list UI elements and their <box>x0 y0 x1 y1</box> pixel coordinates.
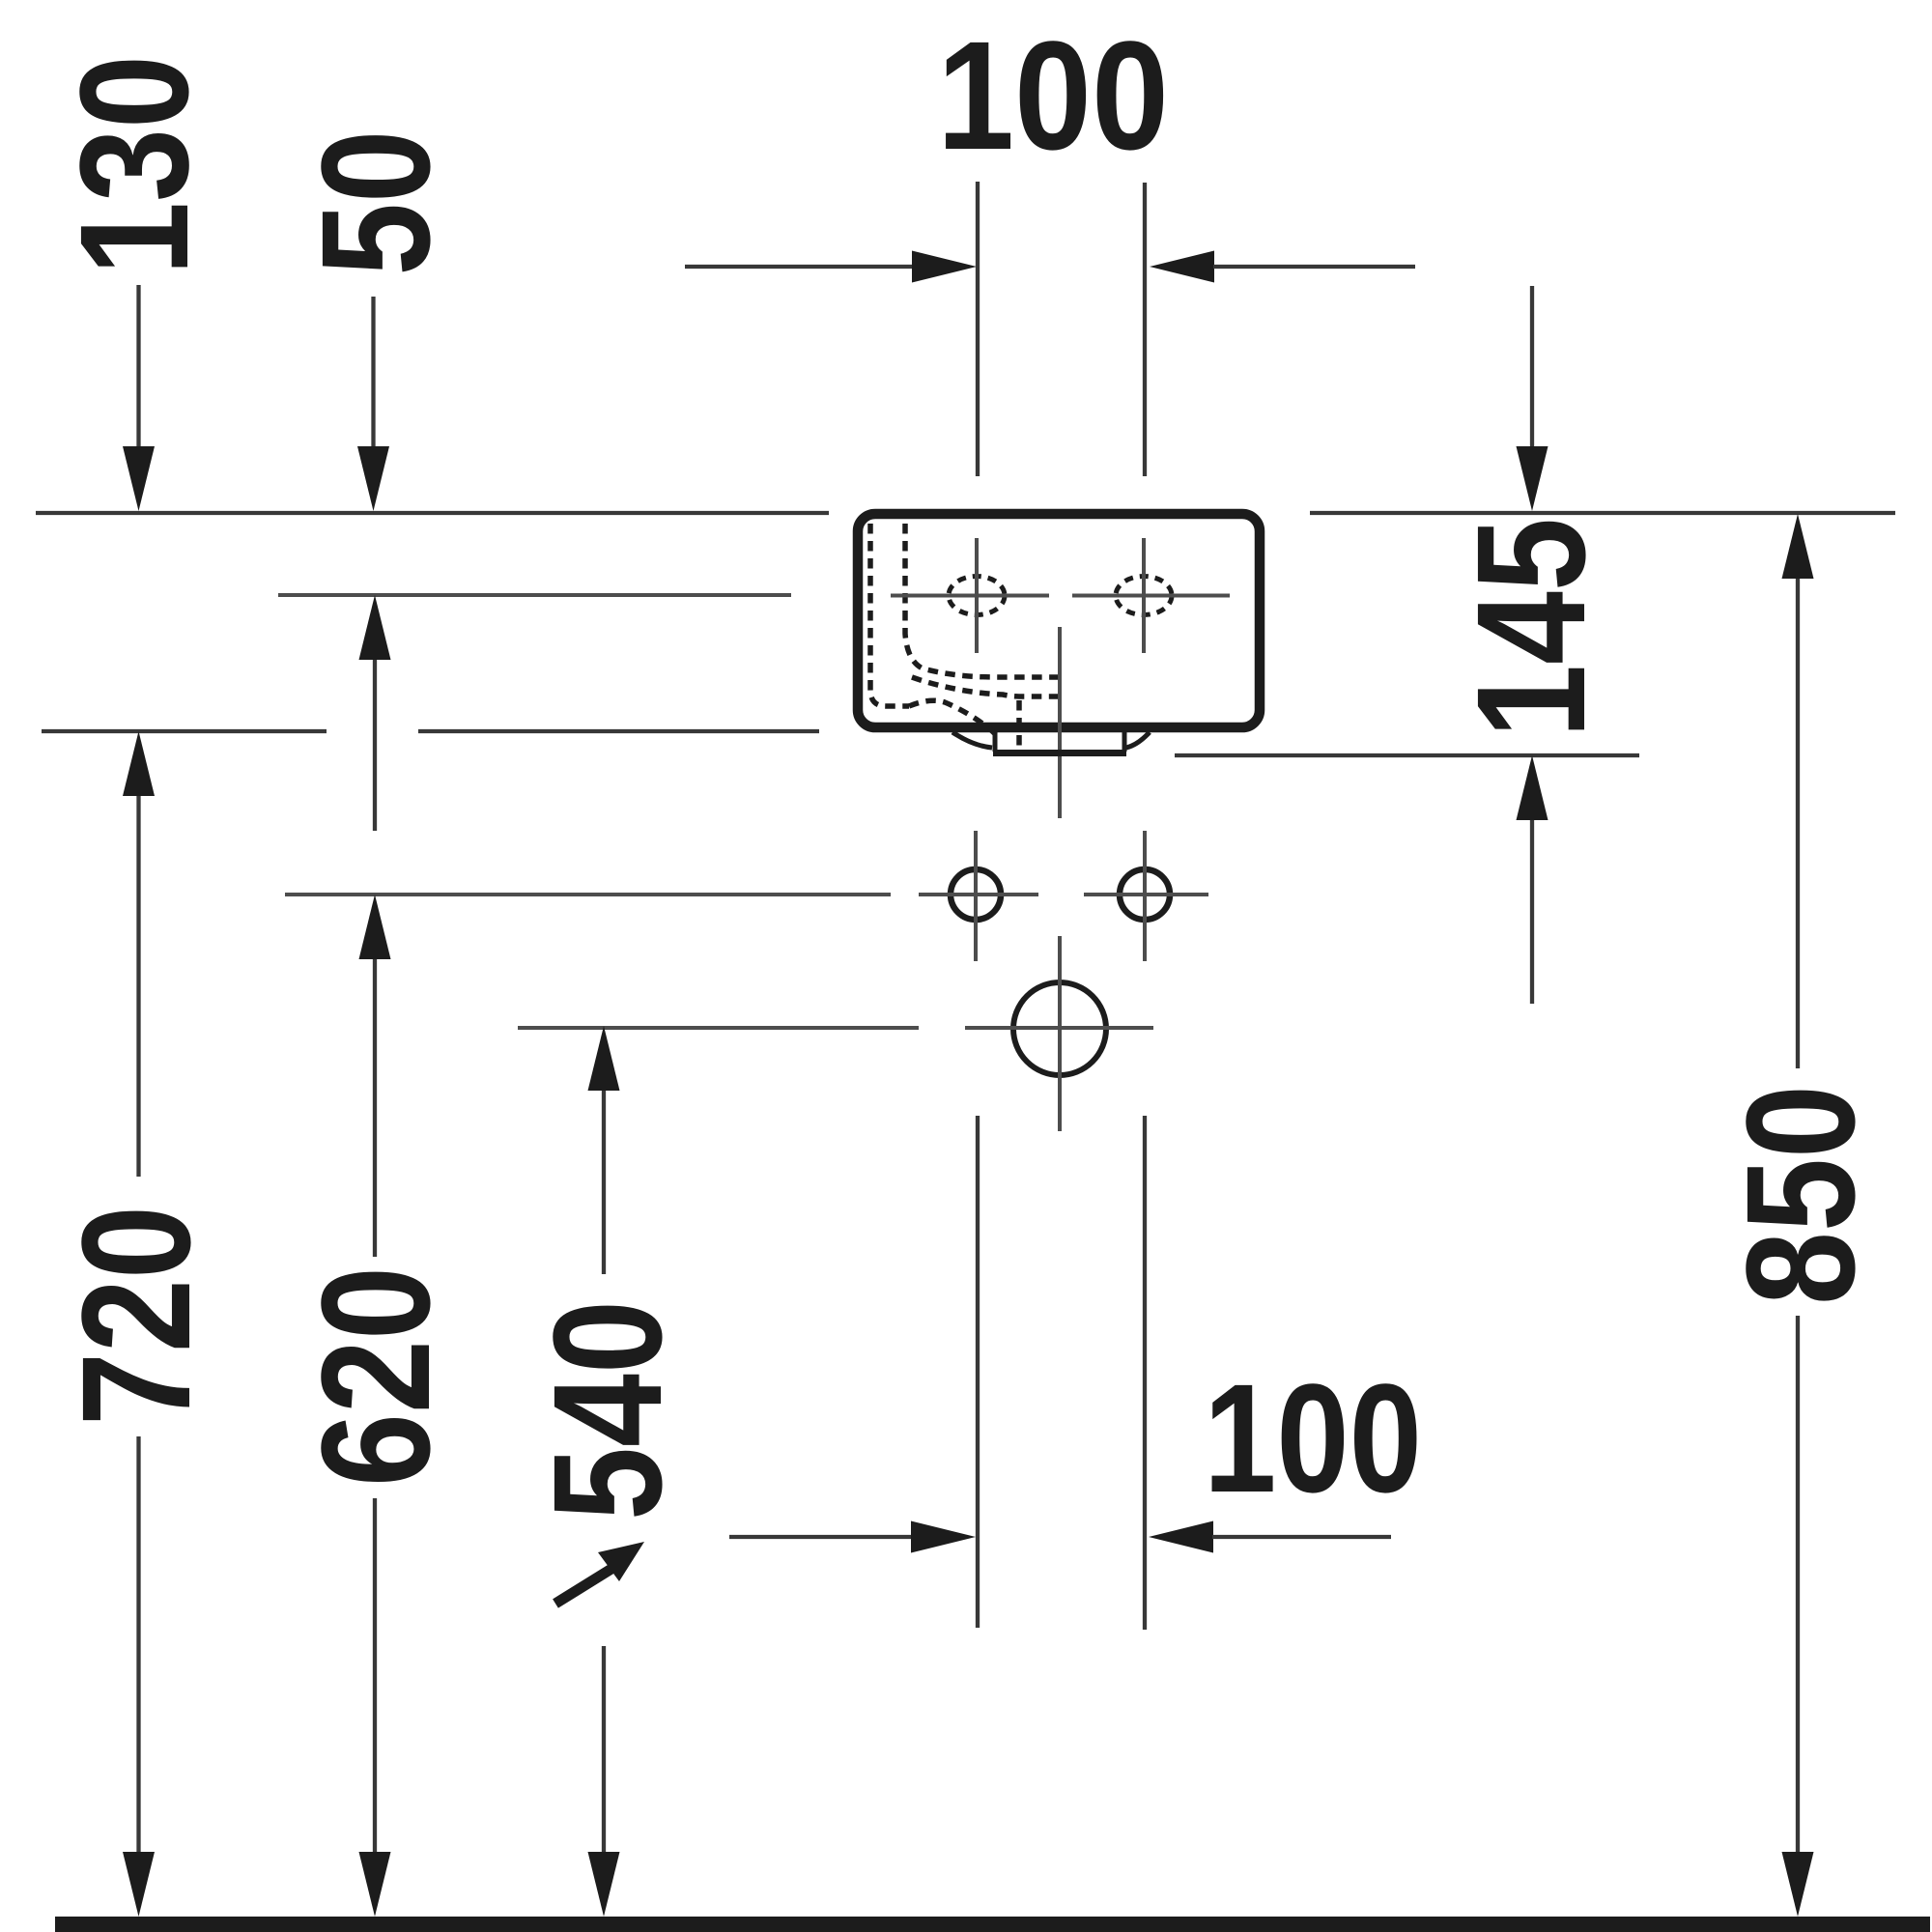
drain outlet vertical crosshair <box>1058 936 1062 1131</box>
dimension 540 line lower <box>602 1646 606 1855</box>
drain outlet circle <box>1013 982 1106 1075</box>
drain centerline upper segment <box>1058 627 1062 818</box>
dimension 145 lower arrow tail <box>1530 820 1534 1004</box>
dimension 620 arrowhead <box>359 895 391 959</box>
dimension 100 bottom left arrowhead <box>911 1521 976 1553</box>
dimension 100 top right arrow line <box>1213 265 1415 269</box>
wall fixing hole left circle <box>951 869 1001 920</box>
wall fixing hole right circle <box>1120 869 1170 920</box>
outlet direction arrow line <box>555 1569 611 1604</box>
dimension 50 arrowhead <box>357 446 389 511</box>
basin bottom reference line left segment <box>42 729 327 733</box>
trap left wall <box>993 732 998 752</box>
basin interior dashed inner wall and channel top <box>905 524 1060 677</box>
basin interior dashed channel mid wall <box>912 677 1060 696</box>
faucet hole right vertical crosshair <box>1142 538 1146 653</box>
faucet hole right dashed ellipse <box>1116 577 1172 615</box>
dimension 130 arrowhead <box>123 446 155 511</box>
svg-text:620: 620 <box>289 1266 462 1487</box>
faucet holes horizontal crosshair right <box>1072 594 1230 598</box>
dimension 850 line upper <box>1796 579 1800 1068</box>
fixing hole right horizontal crosshair <box>1084 893 1208 896</box>
dimension 50 counter arrow tail <box>373 660 377 831</box>
trap bottom plate <box>993 750 1126 756</box>
dimension 850 floor arrowhead <box>1782 1852 1814 1917</box>
fixing hole right vertical crosshair <box>1143 831 1147 961</box>
basin interior dashed drain wall <box>1016 700 1022 753</box>
drain centerline extension left <box>518 1026 919 1030</box>
dimension 145 upper arrow line <box>1530 286 1534 449</box>
dimension 145 upper arrowhead <box>1517 446 1548 511</box>
fixing hole left horizontal crosshair <box>919 893 1038 896</box>
dimension 100 bottom left arrow line <box>729 1535 912 1539</box>
faucet dimension extension line left <box>976 182 980 476</box>
dimension 50 arrow line <box>371 297 375 449</box>
wall top reference line left segment <box>36 511 829 515</box>
svg-text:720: 720 <box>49 1206 222 1426</box>
svg-text:50: 50 <box>289 130 462 276</box>
svg-text:540: 540 <box>521 1300 694 1520</box>
svg-text:100: 100 <box>1204 1351 1422 1524</box>
fixing dimension extension line right <box>1143 1116 1147 1630</box>
dimension 100 top right arrowhead <box>1150 251 1214 283</box>
trap left arc <box>952 732 992 748</box>
svg-text:100: 100 <box>937 9 1169 182</box>
outlet direction arrowhead <box>598 1542 644 1581</box>
svg-text:145: 145 <box>1444 518 1617 738</box>
trap right wall <box>1122 732 1127 752</box>
dimension 720 floor arrowhead <box>123 1852 155 1917</box>
fixing holes centerline extension <box>285 893 891 896</box>
dimension 145 lower arrowhead <box>1517 755 1548 820</box>
faucet hole left dashed ellipse <box>949 577 1005 615</box>
basin interior dashed lower slope <box>909 700 996 735</box>
trap right arc <box>1126 732 1150 748</box>
dimension 720 arrowhead <box>123 731 155 796</box>
dimension 130 arrow line <box>136 285 140 449</box>
dimension 620 line upper <box>373 959 377 1257</box>
faucet holes horizontal crosshair left <box>891 594 1049 598</box>
dimension 720 line upper <box>136 796 140 1177</box>
faucet dimension extension line right <box>1143 183 1147 476</box>
basin underside reference line right <box>1175 753 1639 757</box>
dimension 100 top left arrow line <box>685 265 913 269</box>
dimension 540 arrowhead <box>588 1026 620 1091</box>
dimension 620 floor arrowhead <box>359 1852 391 1917</box>
dimension 720 line lower <box>136 1436 140 1855</box>
fixing hole left vertical crosshair <box>974 831 978 961</box>
dimension 850 line lower <box>1796 1316 1800 1855</box>
svg-text:130: 130 <box>47 55 220 275</box>
dimension 100 bottom right arrow line <box>1212 1535 1391 1539</box>
basin bottom reference line right segment <box>418 729 819 733</box>
basin interior dashed outer wall <box>870 524 909 706</box>
dimension 850 top arrowhead <box>1782 514 1814 579</box>
faucet hole left vertical crosshair <box>975 538 979 653</box>
dimension 50 counter arrowhead <box>359 595 391 660</box>
wall top reference line right segment <box>1310 511 1895 515</box>
svg-text:850: 850 <box>1714 1085 1887 1305</box>
dimension 540 line upper <box>602 1091 606 1274</box>
fixing dimension extension line left <box>976 1116 980 1628</box>
basin outline <box>858 514 1260 727</box>
floor bar <box>55 1917 1930 1932</box>
dimension 540 floor arrowhead <box>588 1852 620 1917</box>
drain outlet horizontal crosshair <box>965 1026 1153 1030</box>
dimension 100 bottom right arrowhead <box>1149 1521 1213 1553</box>
faucet centerline extension line <box>278 593 791 597</box>
dimension 620 line lower <box>373 1498 377 1855</box>
dimension 100 top left arrowhead <box>912 251 977 283</box>
